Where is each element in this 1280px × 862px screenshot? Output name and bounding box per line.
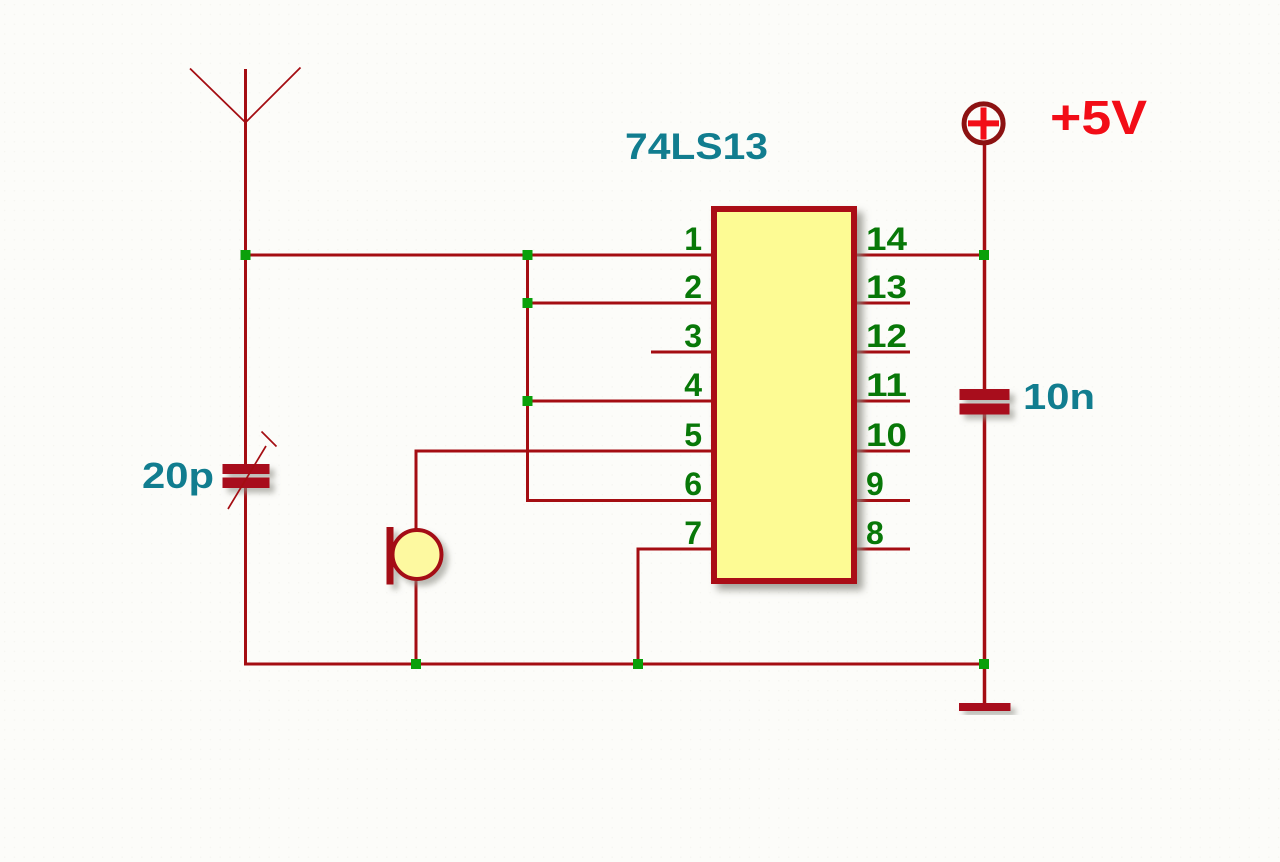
svg-text:8: 8 [866, 515, 884, 551]
svg-text:14: 14 [866, 221, 907, 257]
wire pin 9 stub [856, 499, 910, 502]
node junction rail/pin14 [979, 250, 989, 260]
node junction pin7/bottom-bus [633, 659, 643, 669]
wire microphone to bottom bus [415, 578, 418, 666]
wire trimmer bottom to bottom bus [244, 488, 247, 666]
wire pin 13 stub [856, 302, 910, 305]
node junction bus527/pin4 [523, 396, 533, 406]
svg-text:74LS13: 74LS13 [625, 126, 768, 167]
svg-text:3: 3 [684, 318, 702, 354]
op-amp U1 74LS13 IC body [714, 209, 854, 581]
svg-text:4: 4 [684, 367, 702, 403]
wire pin 2 [526, 302, 712, 305]
wire pin 4 [526, 400, 712, 403]
svg-text:5: 5 [684, 417, 702, 453]
wire pin 8 stub [856, 548, 910, 551]
wire pin 12 stub [856, 351, 910, 354]
svg-text:+5V: +5V [1050, 92, 1147, 145]
node junction antenna/top-bus [241, 250, 251, 260]
ground [959, 703, 1011, 711]
svg-text:12: 12 [866, 318, 907, 354]
wire capacitor to ground [983, 414, 987, 704]
capacitor C2 10n [960, 389, 1010, 415]
svg-text:10n: 10n [1023, 376, 1095, 417]
wire bottom bus [244, 663, 986, 666]
svg-text:11: 11 [866, 367, 907, 403]
node junction mic/bottom-bus [411, 659, 421, 669]
wire top bus to pin 1 [244, 254, 712, 257]
wire pin 3 stub [651, 351, 712, 354]
node junction bus527/pin2 [523, 298, 533, 308]
antenna ANT1 [190, 68, 301, 123]
wire pin 6 [526, 499, 712, 502]
trimmer arrow [228, 432, 277, 510]
power +5V symbol [964, 104, 1003, 143]
node junction rail/bottom-bus [979, 659, 989, 669]
svg-text:6: 6 [684, 466, 702, 502]
svg-text:2: 2 [684, 269, 702, 305]
wire vertical bus x527 [526, 254, 529, 503]
wire pin 5 [415, 450, 713, 453]
wire pin 5 down to microphone [415, 450, 418, 531]
wire pin 10 stub [856, 450, 910, 453]
svg-text:13: 13 [866, 269, 907, 305]
wire pin 14 to +5V rail [856, 254, 986, 257]
wire antenna to trimmer top [244, 120, 247, 464]
wire pin 7 [638, 549, 712, 666]
capacitor C1 20p trimmer [223, 464, 270, 488]
wire +5V symbol down to capacitor [983, 145, 987, 389]
svg-text:1: 1 [684, 221, 702, 257]
svg-text:20p: 20p [142, 455, 214, 496]
microphone MIC1 [387, 527, 442, 585]
wire pin 11 stub [856, 400, 910, 403]
svg-text:10: 10 [866, 417, 907, 453]
svg-text:9: 9 [866, 466, 884, 502]
node junction bus527/pin1 [523, 250, 533, 260]
svg-text:7: 7 [684, 515, 702, 551]
